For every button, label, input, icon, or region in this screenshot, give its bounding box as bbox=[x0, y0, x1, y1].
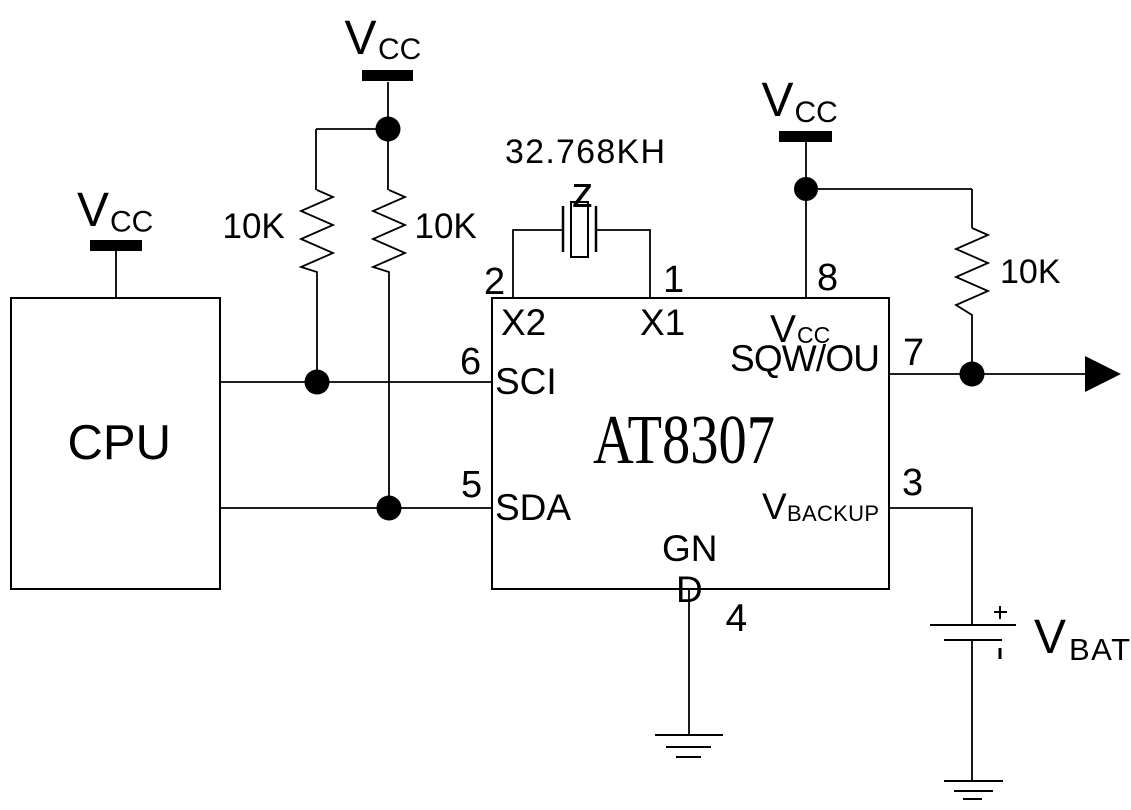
svg-text:z: z bbox=[572, 168, 594, 217]
svg-text:7: 7 bbox=[903, 332, 924, 374]
svg-text:SQW/OU: SQW/OU bbox=[730, 338, 880, 379]
svg-text:32.768KH: 32.768KH bbox=[505, 133, 665, 171]
svg-text:10K: 10K bbox=[223, 207, 285, 246]
svg-text:10K: 10K bbox=[1000, 253, 1061, 291]
svg-text:BAT: BAT bbox=[1069, 632, 1130, 667]
svg-text:1: 1 bbox=[663, 259, 684, 301]
svg-text:CC: CC bbox=[378, 33, 421, 66]
svg-text:V: V bbox=[345, 12, 377, 65]
svg-text:5: 5 bbox=[461, 464, 482, 506]
svg-text:SDA: SDA bbox=[495, 487, 571, 528]
svg-text:6: 6 bbox=[460, 341, 481, 383]
svg-text:2: 2 bbox=[484, 261, 505, 303]
svg-text:CC: CC bbox=[110, 206, 153, 239]
svg-text:10K: 10K bbox=[415, 207, 477, 246]
svg-text:V: V bbox=[762, 486, 787, 527]
svg-text:SCI: SCI bbox=[495, 361, 557, 402]
svg-text:3: 3 bbox=[902, 462, 923, 504]
svg-text:GN: GN bbox=[662, 528, 718, 569]
svg-text:CPU: CPU bbox=[68, 416, 171, 470]
svg-text:AT8307: AT8307 bbox=[593, 402, 775, 479]
svg-text:V: V bbox=[762, 74, 794, 127]
svg-text:CC: CC bbox=[795, 96, 838, 129]
svg-text:V: V bbox=[1034, 611, 1066, 664]
svg-text:4: 4 bbox=[726, 597, 748, 640]
svg-text:X1: X1 bbox=[640, 302, 685, 343]
svg-text:X2: X2 bbox=[501, 302, 546, 343]
svg-text:BACKUP: BACKUP bbox=[787, 501, 879, 526]
svg-text:V: V bbox=[77, 184, 109, 237]
svg-text:8: 8 bbox=[817, 257, 838, 299]
svg-text:D: D bbox=[676, 569, 703, 610]
